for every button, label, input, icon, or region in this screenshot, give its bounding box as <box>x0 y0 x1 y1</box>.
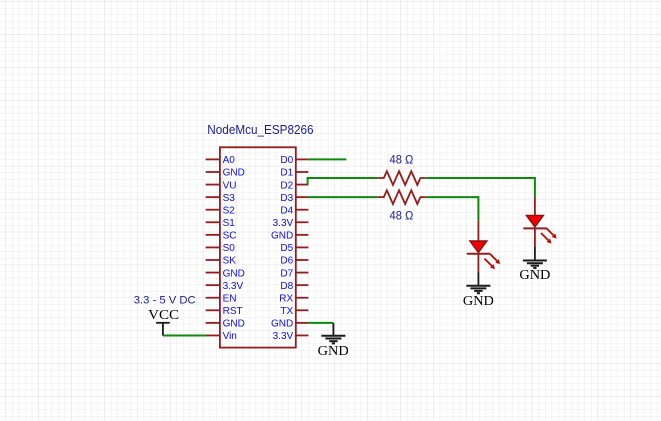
resistor R1 48 ohm <box>377 154 426 185</box>
pin S2 <box>206 205 236 216</box>
svg-text:A0: A0 <box>223 155 236 166</box>
resistor R2 48 ohm <box>377 190 426 222</box>
power VCC <box>148 307 179 335</box>
pin EN <box>206 293 237 304</box>
IC U1 NodeMcu_ESP8266 body <box>207 122 313 347</box>
svg-text:3.3V: 3.3V <box>223 281 244 292</box>
pin D1 <box>280 168 308 179</box>
LED D1 (left) <box>467 221 500 273</box>
svg-text:S2: S2 <box>223 205 236 216</box>
svg-text:EN: EN <box>223 293 237 304</box>
pin 3.3V (right 15) <box>273 331 309 342</box>
svg-text:S3: S3 <box>223 193 236 204</box>
svg-text:S1: S1 <box>223 218 236 229</box>
pin VU <box>206 180 237 191</box>
pin 3.3V (right 6) <box>273 218 309 229</box>
svg-text:D2: D2 <box>280 180 293 191</box>
wire VCC to Vin <box>163 334 207 336</box>
svg-text:VCC: VCC <box>148 307 179 322</box>
wire R1 to LED D2 <box>426 178 535 197</box>
svg-text:GND: GND <box>223 319 245 330</box>
svg-text:GND: GND <box>271 231 293 242</box>
wire GND (right of IC) <box>308 322 333 324</box>
svg-text:D8: D8 <box>280 281 293 292</box>
pin S3 <box>206 193 236 204</box>
svg-text:D3: D3 <box>280 193 293 204</box>
svg-text:VU: VU <box>223 180 237 191</box>
pin SC <box>206 231 237 242</box>
pin D5 <box>280 243 308 254</box>
svg-text:GND: GND <box>271 319 293 330</box>
pin RX <box>279 293 308 304</box>
svg-text:D0: D0 <box>280 155 293 166</box>
pin GND (right 14) <box>271 319 308 330</box>
pin GND (left 10) <box>206 268 245 279</box>
pin GND (left 2) <box>206 168 245 179</box>
svg-text:SC: SC <box>223 231 237 242</box>
svg-text:GND: GND <box>223 268 245 279</box>
pin D2 <box>280 180 308 191</box>
wire D0 stub <box>308 158 346 160</box>
ground under LED D1 <box>463 273 494 308</box>
wire D3 to R2 <box>308 196 377 198</box>
svg-text:48 Ω: 48 Ω <box>390 211 414 223</box>
wire D2 to R1 <box>308 178 378 185</box>
svg-text:GND: GND <box>318 343 349 358</box>
svg-text:S0: S0 <box>223 243 236 254</box>
pin 3.3V (left 11) <box>206 281 244 292</box>
ground right of IC <box>318 323 349 358</box>
pin D3 <box>280 193 308 204</box>
pin D6 <box>280 256 308 267</box>
ground under LED D2 <box>519 247 550 282</box>
svg-text:RX: RX <box>279 293 293 304</box>
pin GND (right 7) <box>271 231 308 242</box>
svg-text:SK: SK <box>223 256 237 267</box>
svg-text:3.3V: 3.3V <box>273 218 294 229</box>
pin RST <box>206 306 243 317</box>
svg-text:D1: D1 <box>280 168 293 179</box>
LED D2 (right) <box>523 197 556 247</box>
pin GND (left 14) <box>206 319 245 330</box>
pin D0 <box>280 155 308 166</box>
pin D8 <box>280 281 308 292</box>
svg-text:D6: D6 <box>280 256 293 267</box>
svg-text:GND: GND <box>519 267 550 282</box>
pin SK <box>206 256 237 267</box>
svg-text:48 Ω: 48 Ω <box>390 154 414 166</box>
svg-text:RST: RST <box>223 306 243 317</box>
pin TX <box>280 306 308 317</box>
svg-text:Vin: Vin <box>223 331 237 342</box>
pin D7 <box>280 268 308 279</box>
svg-text:GND: GND <box>223 168 245 179</box>
svg-text:D4: D4 <box>280 205 293 216</box>
svg-text:3.3 - 5 V DC: 3.3 - 5 V DC <box>134 294 196 306</box>
svg-text:D7: D7 <box>280 268 293 279</box>
pin D4 <box>280 205 308 216</box>
wire R2 to LED D1 <box>426 197 478 220</box>
pin S1 <box>206 218 236 229</box>
svg-text:TX: TX <box>280 306 293 317</box>
svg-text:NodeMcu_ESP8266: NodeMcu_ESP8266 <box>207 122 313 137</box>
svg-text:GND: GND <box>463 293 494 308</box>
pin S0 <box>206 243 236 254</box>
pin A0 <box>206 155 236 166</box>
svg-text:D5: D5 <box>280 243 293 254</box>
svg-text:3.3V: 3.3V <box>273 331 294 342</box>
pin Vin <box>206 331 237 342</box>
